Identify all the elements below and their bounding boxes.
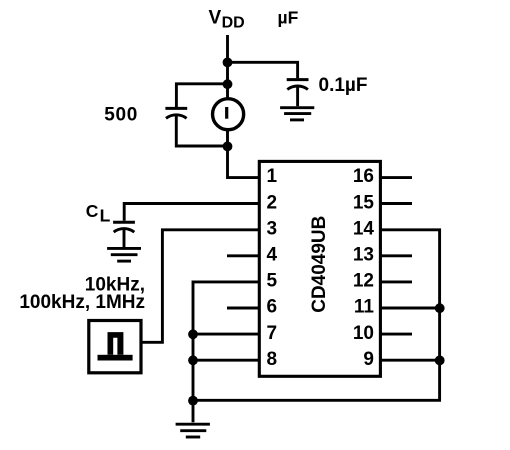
svg-text:4: 4 <box>267 245 278 266</box>
svg-text:10: 10 <box>353 323 374 344</box>
svg-text:3: 3 <box>267 218 278 239</box>
svg-text:8: 8 <box>267 349 278 370</box>
svg-text:CD4049UB: CD4049UB <box>309 216 330 313</box>
svg-text:14: 14 <box>353 218 375 239</box>
svg-text:DD: DD <box>222 15 245 32</box>
svg-text:µF: µF <box>278 8 299 28</box>
svg-text:V: V <box>209 8 222 29</box>
svg-text:0.1µF: 0.1µF <box>319 75 368 96</box>
svg-text:6: 6 <box>267 297 278 318</box>
svg-text:5: 5 <box>267 271 278 292</box>
svg-text:12: 12 <box>353 271 374 292</box>
svg-text:500: 500 <box>104 105 138 126</box>
svg-text:1: 1 <box>267 166 278 187</box>
svg-text:15: 15 <box>353 192 375 213</box>
svg-text:100kHz, 1MHz: 100kHz, 1MHz <box>19 292 145 313</box>
svg-text:9: 9 <box>363 349 374 370</box>
svg-text:13: 13 <box>353 245 374 266</box>
svg-text:L: L <box>100 205 111 225</box>
svg-text:2: 2 <box>267 192 278 213</box>
svg-text:11: 11 <box>354 297 375 318</box>
svg-text:16: 16 <box>353 166 374 187</box>
svg-text:7: 7 <box>267 323 278 344</box>
svg-text:C: C <box>86 201 99 221</box>
